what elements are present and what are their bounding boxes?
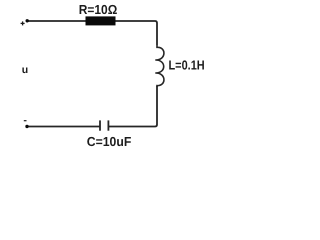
wire right (inductor to bottom-right corner, to capacitor): [108, 86, 157, 127]
wire bottom (capacitor to - terminal): [27, 126, 100, 128]
terminal node dot bottom: [25, 125, 28, 128]
polarity +: [21, 21, 25, 25]
svg-text:u: u: [22, 64, 28, 76]
inductor L1 coil: [155, 45, 164, 87]
resistor R: [86, 16, 116, 25]
svg-text:C=10uF: C=10uF: [87, 134, 132, 149]
polarity -: [24, 120, 27, 122]
terminal node dot top: [26, 19, 29, 22]
svg-text:R=10Ω: R=10Ω: [79, 2, 118, 17]
capacitor C plates: [100, 120, 108, 130]
svg-text:L=0.1H: L=0.1H: [169, 58, 205, 73]
wire top (+ terminal to top-right corner): [27, 21, 157, 45]
